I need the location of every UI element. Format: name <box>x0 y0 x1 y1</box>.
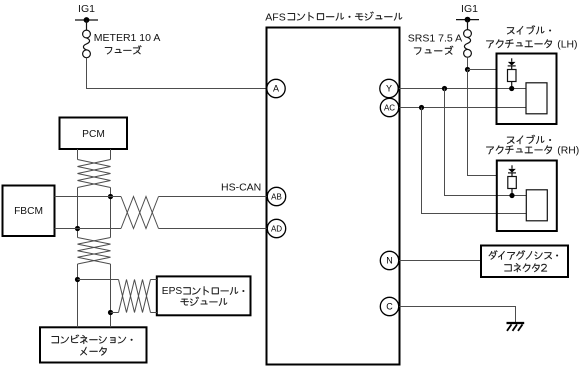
svg-text:AC: AC <box>384 103 395 112</box>
module EPS control module <box>157 276 251 315</box>
wire pin C to ground <box>399 307 516 323</box>
svg-text:IG1: IG1 <box>461 3 478 15</box>
svg-text:HS-CAN: HS-CAN <box>221 182 261 194</box>
actuator M1 swivel actuator LH internal junction dot <box>509 86 514 91</box>
wire CAN bus rails (middle) <box>78 188 111 238</box>
label diagnosis connector digit 2 <box>542 264 547 271</box>
wire twisted pair to pin AB <box>159 196 268 198</box>
junction dot EPS branch top <box>75 277 80 282</box>
svg-text:FBCM: FBCM <box>14 206 43 217</box>
wire junction to swivel actuator LH pin (top) <box>468 69 497 71</box>
junction dot on AC wire <box>419 105 424 110</box>
node IG1 (left ignition feed) <box>75 17 98 30</box>
svg-text:AD: AD <box>271 224 282 233</box>
label swivel actuator RH line2 (katakana) <box>487 147 494 154</box>
twisted pair PCM-CAN (upper) <box>78 160 111 188</box>
label swivel actuator LH line1 <box>507 28 514 34</box>
actuator M2 swivel actuator RH <box>497 161 557 232</box>
wire fuse SRS1 down to junction <box>467 57 469 69</box>
svg-text:A: A <box>273 84 279 94</box>
ground G1 (chassis) <box>507 323 525 331</box>
twisted pair EPS horizontal <box>119 280 151 313</box>
svg-text:AB: AB <box>271 192 282 201</box>
label fuse METER1 (katakana) <box>105 48 112 54</box>
label fuse SRS1 (katakana) <box>414 48 421 54</box>
svg-text:AFS: AFS <box>265 11 285 23</box>
connector J1 diagnosis connector 2 <box>481 246 568 278</box>
junction dot EPS branch bottom <box>108 310 113 315</box>
wire FBCM to twisted pair (CAN-H) <box>55 196 122 198</box>
svg-text:EPS: EPS <box>162 286 183 297</box>
actuator M1 swivel actuator LH internal wire winding to junction <box>511 82 513 89</box>
wire pin AC to swivel actuator LH (bottom) <box>399 107 526 109</box>
pin A of AFS module <box>267 79 285 97</box>
pin Y of AFS module <box>380 79 398 97</box>
twisted pair CAN (lower) <box>78 238 111 265</box>
label combination meter line2 <box>81 347 87 355</box>
wire CAN branch to EPS (bottom) <box>111 312 119 314</box>
node IG1 (right ignition feed) <box>456 17 479 30</box>
wire Y-branch down to swivel actuator RH (middle) <box>445 89 527 196</box>
wire twisted pair to EPS box <box>151 280 157 313</box>
wire junction down to swivel actuator RH pin (top) <box>468 70 497 176</box>
label swivel actuator RH line1 <box>507 137 514 143</box>
svg-text:(RH): (RH) <box>557 145 579 156</box>
wire CAN bus rails to combination meter <box>78 264 111 327</box>
fuse SRS1 7.5 A <box>464 30 472 58</box>
junction dot on Y wire <box>442 86 447 91</box>
pin AC of AFS module <box>380 98 398 116</box>
actuator M1 swivel actuator LH <box>497 54 557 125</box>
label AFS control module (katakana) <box>288 14 295 20</box>
wire FBCM to twisted pair (CAN-L) <box>55 228 122 230</box>
label combination meter line1 <box>52 337 59 343</box>
module FBCM <box>3 186 55 237</box>
pin AB of AFS module <box>267 187 285 205</box>
twisted pair HS-CAN horizontal <box>121 197 159 229</box>
svg-text:C: C <box>386 302 393 312</box>
actuator M2 swivel actuator RH internal junction dot <box>509 193 514 198</box>
actuator M2 swivel actuator RH internal connector block <box>526 190 547 221</box>
junction dot CAN-H at FBCM wire <box>108 194 113 199</box>
svg-text:PCM: PCM <box>82 129 105 140</box>
fuse METER1 10 A <box>83 30 91 58</box>
label diagnosis connector line2 (katakana) <box>505 265 512 271</box>
label EPS control module line1 (katakana) <box>184 288 191 294</box>
label diagnosis connector line1 <box>489 251 497 259</box>
pin C of AFS module <box>380 297 398 315</box>
wire fuse METER1 to pin A <box>87 58 268 89</box>
wire pin Y to swivel actuator LH (middle) <box>398 88 526 90</box>
actuator M1 swivel actuator LH internal connector block <box>526 83 547 114</box>
module PCM <box>60 118 128 150</box>
svg-text:METER1 10 A: METER1 10 A <box>94 32 161 44</box>
wire PCM stubs down <box>78 149 111 160</box>
actuator M1 swivel actuator LH internal motor winding <box>508 70 517 82</box>
label EPS control module line2 (katakana) <box>181 299 189 305</box>
actuator M2 swivel actuator RH internal wire winding to junction <box>511 189 513 196</box>
actuator M2 swivel actuator RH internal motor winding <box>508 177 517 189</box>
label swivel actuator LH line2 (katakana) <box>487 41 494 48</box>
wire twisted pair to pin AD <box>159 228 268 230</box>
svg-text:SRS1 7.5 A: SRS1 7.5 A <box>408 33 462 45</box>
pin N of AFS module <box>380 251 398 269</box>
svg-text:N: N <box>386 256 393 266</box>
svg-text:Y: Y <box>386 84 392 94</box>
module combination meter <box>40 327 147 362</box>
junction dot SRS1 branch <box>465 67 470 72</box>
module U1 AFS control module <box>267 28 400 365</box>
actuator M1 swivel actuator LH internal motor diode <box>508 58 516 69</box>
wire CAN branch to EPS (top) <box>78 279 119 281</box>
svg-text:(LH): (LH) <box>557 39 577 50</box>
actuator M2 swivel actuator RH internal motor diode <box>508 165 516 176</box>
wire AC-branch down to swivel actuator RH (bottom) <box>422 108 527 214</box>
pin AD of AFS module <box>267 219 285 237</box>
wire pin N to diagnosis connector <box>399 260 481 262</box>
junction dot CAN-L at FBCM wire <box>75 226 80 231</box>
svg-text:IG1: IG1 <box>78 3 95 15</box>
